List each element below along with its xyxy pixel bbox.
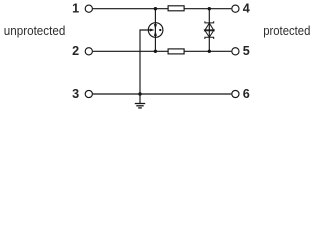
svg-text:5: 5 bbox=[243, 44, 250, 58]
svg-text:unprotected: unprotected bbox=[4, 24, 66, 38]
svg-text:2: 2 bbox=[72, 44, 79, 58]
svg-text:3: 3 bbox=[72, 87, 79, 101]
svg-text:6: 6 bbox=[243, 87, 250, 101]
svg-text:1: 1 bbox=[72, 2, 79, 16]
svg-text:4: 4 bbox=[243, 2, 250, 16]
svg-text:protected: protected bbox=[263, 24, 310, 38]
